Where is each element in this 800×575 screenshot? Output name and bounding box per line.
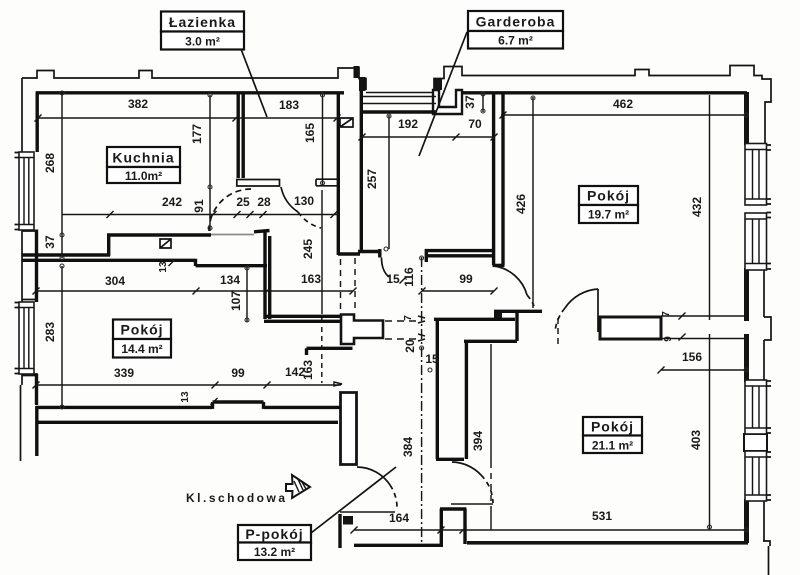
dim line 37 alcove (x483) [482, 92, 484, 112]
svg-text:99: 99 [231, 366, 245, 380]
svg-text:13.2 m²: 13.2 m² [254, 545, 295, 559]
window right 1 (pokoj19 upper) [745, 144, 767, 206]
wall pokoj19 right segments [744, 92, 749, 145]
svg-text:164: 164 [389, 511, 409, 525]
wall pokoj14 top [22, 259, 268, 266]
window sill notches left outer [15, 153, 20, 374]
wall pokoj19/21 hollow box part [600, 317, 661, 339]
svg-text:7: 7 [403, 315, 414, 321]
door arc corridor bottom [452, 462, 481, 475]
wall hall bottom west of duct (double line) [264, 316, 341, 321]
dim line 164/531 (y530) [354, 529, 746, 531]
svg-text:15: 15 [425, 352, 439, 366]
wall bathroom bottom left part (hollow) [237, 180, 280, 187]
svg-text:177: 177 [190, 124, 204, 144]
wall kitchen bottom right segment (door gap 211-254) [107, 233, 211, 236]
door leaf pokoj19 [597, 289, 599, 332]
wall pokoj19/21 right thin lines [661, 316, 746, 339]
door arc bathroom [281, 187, 298, 212]
svg-text:183: 183 [279, 98, 299, 112]
wall right below window4 [744, 499, 749, 543]
wall duct right of bathroom [360, 91, 363, 250]
svg-text:403: 403 [689, 430, 703, 450]
SECTION: doors [209, 187, 598, 512]
wall notch below door pokoj19 [494, 311, 502, 318]
svg-text:283: 283 [43, 322, 57, 342]
label box Garderoba [468, 11, 563, 49]
svg-text:Garderoba: Garderoba [476, 14, 556, 30]
svg-text:19.7 m²: 19.7 m² [588, 208, 629, 222]
wall kitchen bottom left segment [22, 253, 111, 256]
svg-text:13: 13 [180, 391, 191, 403]
svg-text:163: 163 [301, 272, 321, 286]
dim line 462 (y115) [501, 114, 746, 116]
SECTION: windows [15, 144, 772, 502]
wall kitchen door right jamb [254, 231, 270, 232]
door threshold staircase [340, 511, 395, 513]
wall pier right of bathroom bump [354, 66, 360, 78]
vent marker on kitchen wall [160, 239, 171, 248]
wall Z-duct outline near staircase [341, 315, 383, 345]
window right 4 (pokoj21 lower) [745, 451, 767, 501]
window right 3 (pokoj21 upper) [745, 380, 767, 434]
wall staircase door jamb left [338, 514, 341, 548]
svg-text:130: 130 [294, 194, 314, 208]
wall stub x517 down [515, 312, 518, 341]
svg-text:394: 394 [471, 431, 485, 451]
dim line 283 (x62 lower) [61, 266, 63, 407]
wall right between junction and window3 [744, 334, 749, 382]
svg-text:Kuchnia: Kuchnia [112, 150, 174, 166]
wire outer top wall outline with chimney bumps [22, 66, 771, 144]
svg-text:37: 37 [43, 235, 57, 249]
leader line Lazienka [241, 49, 267, 117]
svg-text:257: 257 [365, 169, 379, 189]
svg-text:28: 28 [257, 195, 271, 209]
wall sill block between right windows 3-4 [744, 434, 767, 451]
window sill notches right outer [767, 145, 772, 500]
wall staircase right (hollow) [341, 393, 357, 465]
wall garderoba alcove L-piece [433, 90, 462, 114]
svg-text:99: 99 [459, 272, 473, 286]
svg-text:268: 268 [43, 153, 57, 173]
wall bathroom left (double line) [238, 93, 243, 178]
wall left bottom corner [22, 374, 37, 385]
wire outer right wall [763, 143, 771, 575]
window right 2 (pokoj19 lower) [745, 213, 767, 270]
dashes opening above Z-duct [341, 258, 356, 313]
dim line 257 garderoba (x389) [388, 115, 390, 249]
dim dashline 384/118/20 (x421.6 dash-dot) [421, 257, 423, 542]
dim line 156 (y370) [661, 369, 746, 371]
dim line 268/37 left (x62) [61, 93, 63, 258]
svg-text:531: 531 [592, 509, 612, 523]
svg-text:11.0m²: 11.0m² [125, 169, 162, 183]
dim line 107 (x247) [246, 266, 248, 322]
svg-text:15: 15 [386, 272, 400, 286]
svg-text:91: 91 [192, 199, 206, 213]
wall corridor bottom cap [436, 458, 464, 461]
wall hall-part bottom (x464-517) [464, 340, 517, 343]
svg-text:156: 156 [682, 350, 702, 364]
svg-text:21.1 m²: 21.1 m² [592, 439, 633, 453]
wall opening dashes east of Z-duct [385, 321, 421, 339]
window left 1 [19, 152, 34, 230]
wall pier left of garderoba bump [434, 78, 442, 90]
svg-text:116: 116 [402, 267, 416, 287]
dim line 403 (x709 lower) [709, 334, 711, 529]
wall bottom wing second line [36, 421, 338, 424]
wall top inner right part (garderoba to pokoj 19.7) [455, 91, 747, 94]
svg-text:Pokój: Pokój [591, 419, 634, 435]
svg-text:382: 382 [128, 97, 148, 111]
dim line 382/183 (y118) [38, 117, 337, 119]
wire outer left wall upper [21, 78, 23, 461]
svg-text:339: 339 [114, 366, 134, 380]
label box P-pokoj [238, 525, 311, 560]
dashed door line at x558 [557, 318, 559, 345]
wall left inner upper [36, 92, 39, 153]
svg-text:20: 20 [403, 339, 417, 353]
wall kitchen bottom step vertical [107, 235, 110, 256]
dim line 192/70 (y137) [362, 136, 494, 138]
svg-text:25: 25 [236, 195, 250, 209]
wall top piece x494-542 [494, 310, 542, 313]
dim line 394 (x491) [490, 344, 492, 462]
arrow staircase [286, 475, 310, 498]
wall staircase south [354, 544, 441, 547]
door arc pokoj19 [565, 289, 598, 308]
svg-text:245: 245 [301, 239, 315, 259]
door arc hall to pokoj21 hall-part [494, 266, 527, 295]
wall bottom wing left vertical [35, 406, 38, 456]
wall left inner below window2 + cap [35, 374, 38, 405]
svg-text:Pokój: Pokój [587, 188, 630, 204]
wall left inner between windows + caps [35, 230, 38, 303]
wall hall left vertical (double line) [265, 233, 270, 320]
window left 2 [19, 302, 34, 374]
dim line 245 (x322 lower) [321, 190, 323, 314]
svg-text:70: 70 [468, 117, 482, 131]
wall pokoj21 bottom [467, 541, 748, 545]
door arc entry from staircase [357, 467, 390, 485]
wall top inner kitchen+bathroom [36, 91, 344, 94]
svg-text:6.7 m²: 6.7 m² [498, 34, 533, 48]
leader line Garderoba [419, 32, 467, 156]
SECTION: inner walls [22, 66, 768, 548]
svg-text:Pokój: Pokój [120, 322, 163, 338]
svg-text:7: 7 [661, 311, 672, 317]
dim line 177/91 (x210) [209, 95, 211, 231]
svg-text:Kl.schodowa: Kl.schodowa [186, 491, 288, 505]
wall corridor cap top [434, 318, 515, 321]
vent marker in duct [340, 118, 353, 127]
label box Lazienka [161, 12, 244, 50]
door arc duct small [382, 258, 390, 278]
svg-text:432: 432 [690, 197, 704, 217]
wall bathroom bottom right part (hollow) [316, 179, 340, 186]
door threshold corridor bottom [451, 503, 493, 505]
svg-text:192: 192 [398, 117, 418, 131]
SECTION: labels [107, 11, 642, 560]
wall bottom wing: pokoj14 bottom with step [36, 402, 341, 409]
svg-text:304: 304 [105, 274, 125, 288]
svg-text:P-pokój: P-pokój [245, 526, 303, 542]
label box Kuchnia [107, 147, 180, 183]
svg-text:165: 165 [303, 123, 317, 143]
svg-text:384: 384 [401, 437, 415, 457]
label box Pokoj 19.7 [579, 186, 638, 223]
wall bathroom right [337, 94, 340, 255]
door arc kitchen (dashed) [209, 189, 251, 231]
svg-text:13: 13 [158, 261, 169, 273]
svg-text:426: 426 [514, 194, 528, 214]
wall right below window2 [744, 268, 749, 321]
dim line 432 (x709) [709, 95, 711, 320]
svg-text:3.0 m²: 3.0 m² [185, 35, 220, 49]
dim line 242/25/28/130 (y214.5) [62, 214, 338, 216]
dim line 304/134/163/99 (y291) [36, 290, 494, 292]
wall light-well thin lines [362, 93, 436, 104]
svg-text:9: 9 [663, 336, 674, 342]
wall entry pillar (hollow) [440, 509, 466, 548]
dim line 165 (x322) [322, 93, 324, 185]
wall corridor left vertical [436, 318, 439, 459]
svg-text:242: 242 [162, 195, 182, 209]
wall step line below Z-duct [307, 348, 353, 355]
svg-text:134: 134 [220, 273, 240, 287]
svg-text:37: 37 [463, 95, 477, 109]
dim line 426 (x533) [532, 97, 534, 308]
dim line 339/99/142 (y385) [36, 384, 341, 386]
svg-text:462: 462 [613, 97, 633, 111]
wall duct cap bottom [338, 249, 380, 258]
label box Pokoj 14.4 [113, 320, 171, 358]
svg-text:14.4 m²: 14.4 m² [121, 342, 162, 356]
dim line 13 step kitchen [169, 259, 176, 266]
wall garderoba/pokoj19 vertical (double line) [492, 92, 495, 265]
svg-text:163: 163 [301, 360, 315, 380]
svg-text:Łazienka: Łazienka [169, 14, 236, 30]
label box Pokoj 21.1 [583, 417, 642, 453]
wall corridor right vertical [465, 340, 468, 459]
svg-text:107: 107 [229, 291, 243, 311]
leader line P-pokoj [311, 467, 396, 533]
wall garderoba bottom (double line) [425, 249, 494, 262]
